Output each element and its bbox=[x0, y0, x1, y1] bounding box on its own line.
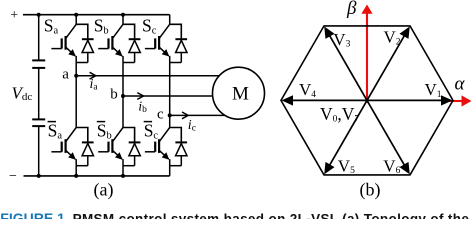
transistor Sa (lower) bbox=[51, 128, 87, 166]
svg-text:V6: V6 bbox=[383, 156, 400, 176]
diode Dc (antiparallel of Sc) bbox=[175, 39, 187, 62]
wire leg b lower drop to rail bbox=[122, 166, 124, 176]
wire phase a to motor bbox=[76, 75, 221, 77]
svg-text:Sc: Sc bbox=[144, 121, 159, 142]
wire leg a upper drop bbox=[75, 15, 77, 25]
svg-text:a: a bbox=[62, 67, 69, 83]
svg-text:(a): (a) bbox=[94, 179, 114, 200]
svg-text:V4: V4 bbox=[299, 80, 316, 100]
svg-text:Sc: Sc bbox=[142, 16, 157, 37]
current arrow ib bbox=[137, 93, 143, 100]
diode Db2 (antiparallel of Sb (lower)) bbox=[129, 142, 141, 165]
axis beta (red) bbox=[361, 5, 372, 103]
label Sbar_c bbox=[144, 121, 159, 142]
svg-text:PMSM control system based on 2: PMSM control system based on 2L-VSI. (a)… bbox=[73, 212, 470, 219]
wire bottom DC rail bbox=[24, 175, 170, 177]
diode Db (antiparallel of Sb) bbox=[129, 39, 141, 62]
motor M bbox=[213, 67, 265, 119]
wire DC-link middle segment bbox=[38, 69, 40, 119]
wire leg a middle (to node a) bbox=[75, 63, 77, 128]
vector V6 bbox=[367, 100, 410, 174]
junction bottom rail / DC-link bbox=[37, 174, 41, 178]
transistor Sb bbox=[98, 24, 134, 62]
vector V5 bbox=[324, 100, 367, 174]
diode Dc2 (antiparallel of Sc (lower)) bbox=[175, 142, 187, 165]
capacitor C1 bbox=[32, 60, 45, 68]
svg-text:Vdc: Vdc bbox=[12, 84, 33, 104]
wire phase b to motor bbox=[123, 95, 215, 97]
wire leg b middle (to node b) bbox=[122, 63, 124, 128]
current arrow ic bbox=[182, 112, 188, 119]
node a bbox=[74, 74, 78, 78]
junction bottom rail / leg a bbox=[74, 174, 78, 178]
svg-text:α: α bbox=[455, 74, 466, 95]
svg-text:b: b bbox=[110, 86, 118, 102]
svg-text:ia: ia bbox=[90, 77, 99, 93]
node c bbox=[168, 113, 172, 117]
svg-text:Sa: Sa bbox=[44, 16, 59, 37]
svg-text:ib: ib bbox=[138, 99, 147, 115]
label Sbar_b bbox=[97, 121, 112, 142]
svg-text:Sb: Sb bbox=[94, 16, 109, 37]
junction bottom rail / leg b bbox=[121, 174, 125, 178]
svg-text:M: M bbox=[232, 84, 249, 105]
svg-text:V1: V1 bbox=[425, 80, 442, 100]
wire leg c lower drop to rail bbox=[169, 166, 171, 176]
svg-text:−: − bbox=[9, 169, 17, 184]
junction top rail / leg b bbox=[121, 13, 125, 17]
vector V1 bbox=[367, 95, 453, 105]
label Sbar_a bbox=[48, 121, 63, 142]
current arrow ia bbox=[90, 72, 96, 79]
svg-text:V2: V2 bbox=[384, 28, 401, 48]
wire top DC rail bbox=[23, 14, 170, 16]
svg-text:(b): (b) bbox=[360, 179, 381, 200]
node b bbox=[121, 94, 125, 98]
vector V4 bbox=[282, 95, 368, 105]
wire DC-link branch upper segment bbox=[38, 15, 40, 60]
junction top rail / leg a bbox=[74, 13, 78, 17]
wire phase c to motor bbox=[170, 114, 227, 116]
svg-text:+: + bbox=[10, 8, 18, 23]
axis alpha (red) bbox=[449, 95, 472, 106]
svg-text:c: c bbox=[157, 107, 164, 123]
diode Da2 (antiparallel of Sa (lower)) bbox=[82, 142, 94, 165]
capacitor C2 bbox=[32, 119, 45, 126]
wire leg a lower drop to rail bbox=[75, 166, 77, 176]
svg-text:ic: ic bbox=[188, 118, 196, 134]
wire leg b upper drop bbox=[122, 15, 124, 25]
transistor Sc (lower) bbox=[145, 128, 181, 166]
vector V3 bbox=[324, 26, 367, 100]
transistor Sc bbox=[145, 24, 181, 62]
wire DC-link lower segment bbox=[38, 127, 40, 176]
transistor Sa bbox=[51, 24, 87, 62]
svg-text:V3: V3 bbox=[333, 30, 350, 50]
svg-text:FIGURE 1.: FIGURE 1. bbox=[0, 210, 68, 219]
transistor Sb (lower) bbox=[98, 128, 134, 166]
hexagon outline bbox=[281, 26, 453, 175]
vector V2 bbox=[367, 26, 410, 100]
svg-text:Sa: Sa bbox=[48, 121, 63, 142]
svg-text:V0,V7: V0,V7 bbox=[320, 104, 359, 125]
junction top rail / DC-link bbox=[37, 13, 41, 17]
svg-text:Sb: Sb bbox=[97, 121, 112, 142]
diode Da (antiparallel of Sa) bbox=[82, 39, 94, 62]
svg-text:V5: V5 bbox=[338, 156, 355, 176]
wire leg c middle (to node c) bbox=[169, 63, 171, 128]
svg-text:β: β bbox=[346, 0, 357, 19]
wire leg c upper drop bbox=[169, 15, 171, 25]
